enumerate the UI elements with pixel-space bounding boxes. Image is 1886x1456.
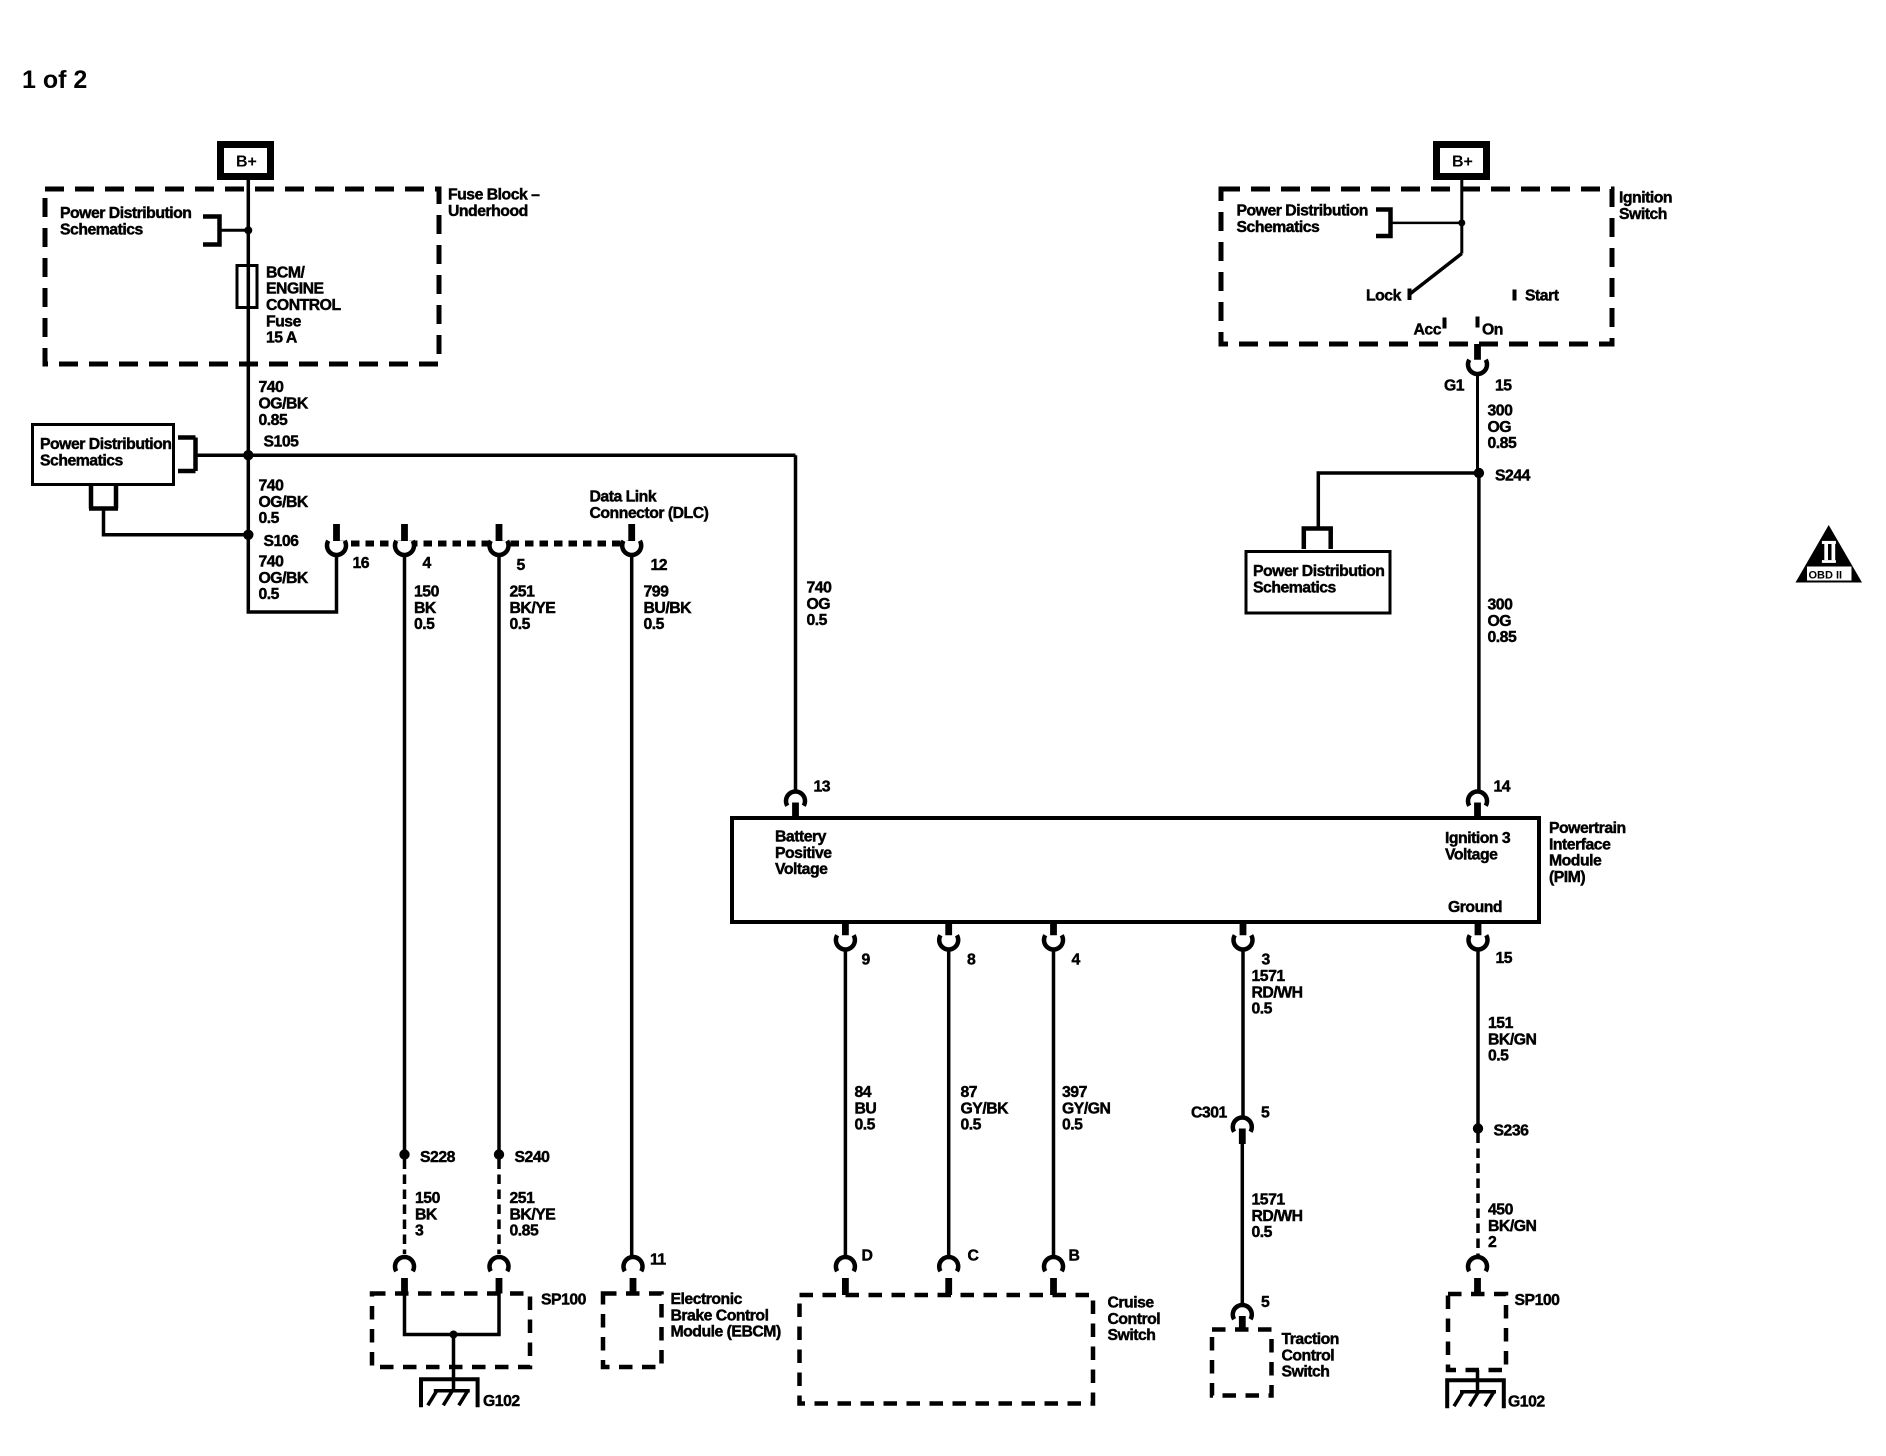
svg-text:Fuse: Fuse bbox=[266, 313, 302, 330]
svg-text:0.85: 0.85 bbox=[510, 1223, 539, 1240]
svg-text:0.5: 0.5 bbox=[644, 616, 665, 633]
svg-text:3: 3 bbox=[1262, 952, 1271, 969]
svg-text:Power Distribution: Power Distribution bbox=[1253, 563, 1384, 580]
svg-text:251: 251 bbox=[510, 584, 536, 601]
svg-text:9: 9 bbox=[862, 952, 871, 969]
svg-text:Switch: Switch bbox=[1108, 1327, 1156, 1344]
svg-text:On: On bbox=[1482, 322, 1503, 339]
svg-text:BK/GN: BK/GN bbox=[1488, 1031, 1536, 1048]
svg-text:Schematics: Schematics bbox=[60, 221, 144, 238]
svg-text:Module (EBCM): Module (EBCM) bbox=[671, 1324, 781, 1341]
svg-text:OG: OG bbox=[1488, 419, 1512, 436]
svg-text:15 A: 15 A bbox=[266, 330, 297, 347]
svg-text:84: 84 bbox=[855, 1084, 872, 1101]
svg-text:Module: Module bbox=[1549, 853, 1602, 870]
svg-text:Acc: Acc bbox=[1414, 322, 1442, 339]
svg-text:BCM/: BCM/ bbox=[266, 264, 305, 281]
svg-text:CONTROL: CONTROL bbox=[266, 297, 341, 314]
svg-text:BK/YE: BK/YE bbox=[510, 600, 556, 617]
svg-text:450: 450 bbox=[1488, 1202, 1514, 1219]
svg-text:BK: BK bbox=[415, 1206, 438, 1223]
svg-text:Schematics: Schematics bbox=[1253, 579, 1337, 596]
svg-text:300: 300 bbox=[1488, 597, 1514, 614]
svg-text:15: 15 bbox=[1495, 378, 1512, 395]
svg-text:2: 2 bbox=[1488, 1234, 1497, 1251]
svg-text:S106: S106 bbox=[264, 533, 300, 550]
svg-text:1571: 1571 bbox=[1252, 968, 1286, 985]
svg-text:Cruise: Cruise bbox=[1108, 1295, 1155, 1312]
svg-text:C301: C301 bbox=[1191, 1105, 1227, 1122]
svg-text:Underhood: Underhood bbox=[448, 203, 528, 220]
svg-text:Ignition: Ignition bbox=[1619, 190, 1672, 207]
svg-text:Power Distribution: Power Distribution bbox=[60, 205, 191, 222]
svg-text:Switch: Switch bbox=[1282, 1364, 1330, 1381]
svg-text:14: 14 bbox=[1494, 779, 1511, 796]
svg-text:Ground: Ground bbox=[1448, 899, 1502, 916]
svg-text:BK/GN: BK/GN bbox=[1488, 1218, 1536, 1235]
svg-text:Data Link: Data Link bbox=[590, 489, 657, 506]
svg-text:Lock: Lock bbox=[1366, 288, 1402, 305]
svg-text:S236: S236 bbox=[1494, 1123, 1530, 1140]
svg-text:3: 3 bbox=[415, 1223, 424, 1240]
svg-text:BU: BU bbox=[855, 1100, 877, 1117]
svg-text:0.5: 0.5 bbox=[1252, 1224, 1273, 1241]
svg-text:12: 12 bbox=[651, 557, 668, 574]
svg-text:GY/BK: GY/BK bbox=[961, 1100, 1010, 1117]
svg-text:OBD II: OBD II bbox=[1809, 570, 1843, 582]
svg-text:OG/BK: OG/BK bbox=[259, 570, 309, 587]
svg-text:150: 150 bbox=[414, 584, 440, 601]
svg-text:5: 5 bbox=[1261, 1105, 1270, 1122]
svg-text:15: 15 bbox=[1496, 950, 1513, 967]
svg-text:Connector (DLC): Connector (DLC) bbox=[590, 505, 709, 522]
svg-text:151: 151 bbox=[1488, 1015, 1514, 1032]
svg-text:Switch: Switch bbox=[1619, 206, 1667, 223]
svg-text:4: 4 bbox=[1072, 952, 1081, 969]
svg-text:OG: OG bbox=[807, 596, 831, 613]
svg-text:4: 4 bbox=[423, 555, 432, 572]
svg-text:SP100: SP100 bbox=[541, 1292, 587, 1309]
svg-text:B: B bbox=[1069, 1248, 1080, 1265]
svg-text:Interface: Interface bbox=[1549, 836, 1611, 853]
svg-text:0.5: 0.5 bbox=[1488, 1048, 1509, 1065]
svg-text:Control: Control bbox=[1108, 1311, 1161, 1328]
svg-text:Schematics: Schematics bbox=[40, 452, 124, 469]
svg-text:Control: Control bbox=[1282, 1347, 1335, 1364]
svg-text:740: 740 bbox=[259, 554, 285, 571]
svg-text:0.5: 0.5 bbox=[1252, 1001, 1273, 1018]
svg-text:SP100: SP100 bbox=[1515, 1292, 1561, 1309]
svg-text:150: 150 bbox=[415, 1190, 441, 1207]
svg-text:RD/WH: RD/WH bbox=[1252, 1208, 1303, 1225]
svg-text:Schematics: Schematics bbox=[1237, 219, 1321, 236]
svg-text:Power Distribution: Power Distribution bbox=[40, 436, 171, 453]
svg-text:BU/BK: BU/BK bbox=[644, 600, 693, 617]
svg-text:Powertrain: Powertrain bbox=[1549, 820, 1626, 837]
svg-text:GY/GN: GY/GN bbox=[1062, 1100, 1110, 1117]
svg-text:B+: B+ bbox=[1452, 154, 1473, 171]
svg-text:799: 799 bbox=[644, 584, 670, 601]
svg-text:BK: BK bbox=[414, 600, 437, 617]
svg-text:13: 13 bbox=[814, 779, 831, 796]
svg-text:Traction: Traction bbox=[1282, 1331, 1339, 1348]
svg-text:300: 300 bbox=[1488, 403, 1514, 420]
svg-text:OG/BK: OG/BK bbox=[259, 396, 309, 413]
svg-text:Electronic: Electronic bbox=[671, 1291, 743, 1308]
svg-text:G102: G102 bbox=[1508, 1394, 1545, 1411]
svg-text:0.5: 0.5 bbox=[961, 1117, 982, 1134]
svg-text:G1: G1 bbox=[1444, 378, 1465, 395]
svg-text:740: 740 bbox=[259, 478, 285, 495]
svg-text:0.5: 0.5 bbox=[855, 1117, 876, 1134]
svg-text:0.85: 0.85 bbox=[259, 412, 288, 429]
svg-text:0.5: 0.5 bbox=[259, 586, 280, 603]
svg-text:OG: OG bbox=[1488, 613, 1512, 630]
svg-text:Power Distribution: Power Distribution bbox=[1237, 203, 1368, 220]
svg-text:Fuse Block –: Fuse Block – bbox=[448, 187, 540, 204]
svg-text:11: 11 bbox=[650, 1252, 666, 1269]
svg-text:5: 5 bbox=[517, 557, 526, 574]
svg-text:B+: B+ bbox=[236, 154, 257, 171]
svg-text:Ignition 3: Ignition 3 bbox=[1445, 830, 1511, 847]
svg-text:Voltage: Voltage bbox=[1445, 846, 1498, 863]
svg-text:5: 5 bbox=[1261, 1294, 1270, 1311]
svg-text:8: 8 bbox=[967, 952, 976, 969]
svg-text:RD/WH: RD/WH bbox=[1252, 984, 1303, 1001]
svg-text:S244: S244 bbox=[1495, 468, 1531, 485]
svg-text:16: 16 bbox=[353, 555, 370, 572]
svg-text:Positive: Positive bbox=[775, 845, 832, 862]
svg-text:0.5: 0.5 bbox=[414, 616, 435, 633]
svg-text:1 of 2: 1 of 2 bbox=[22, 66, 87, 94]
svg-text:740: 740 bbox=[259, 379, 285, 396]
svg-text:0.5: 0.5 bbox=[1062, 1117, 1083, 1134]
svg-text:251: 251 bbox=[510, 1190, 536, 1207]
svg-text:OG/BK: OG/BK bbox=[259, 494, 309, 511]
svg-text:0.5: 0.5 bbox=[259, 510, 280, 527]
svg-text:0.5: 0.5 bbox=[807, 612, 828, 629]
svg-text:S228: S228 bbox=[420, 1149, 456, 1166]
svg-text:0.85: 0.85 bbox=[1488, 435, 1517, 452]
svg-text:ENGINE: ENGINE bbox=[266, 281, 324, 298]
svg-text:Brake Control: Brake Control bbox=[671, 1307, 769, 1324]
svg-text:0.85: 0.85 bbox=[1488, 629, 1517, 646]
svg-text:397: 397 bbox=[1062, 1084, 1088, 1101]
svg-text:(PIM): (PIM) bbox=[1549, 869, 1585, 886]
svg-text:Start: Start bbox=[1525, 288, 1560, 305]
svg-text:87: 87 bbox=[961, 1084, 978, 1101]
svg-text:Battery: Battery bbox=[775, 829, 827, 846]
svg-text:G102: G102 bbox=[483, 1393, 520, 1410]
svg-text:BK/YE: BK/YE bbox=[510, 1206, 556, 1223]
svg-text:1571: 1571 bbox=[1252, 1192, 1286, 1209]
svg-text:0.5: 0.5 bbox=[510, 616, 531, 633]
svg-text:C: C bbox=[968, 1248, 979, 1265]
svg-text:Voltage: Voltage bbox=[775, 861, 828, 878]
svg-text:740: 740 bbox=[807, 580, 833, 597]
svg-text:S105: S105 bbox=[264, 434, 300, 451]
svg-text:D: D bbox=[862, 1248, 873, 1265]
svg-text:S240: S240 bbox=[515, 1149, 551, 1166]
